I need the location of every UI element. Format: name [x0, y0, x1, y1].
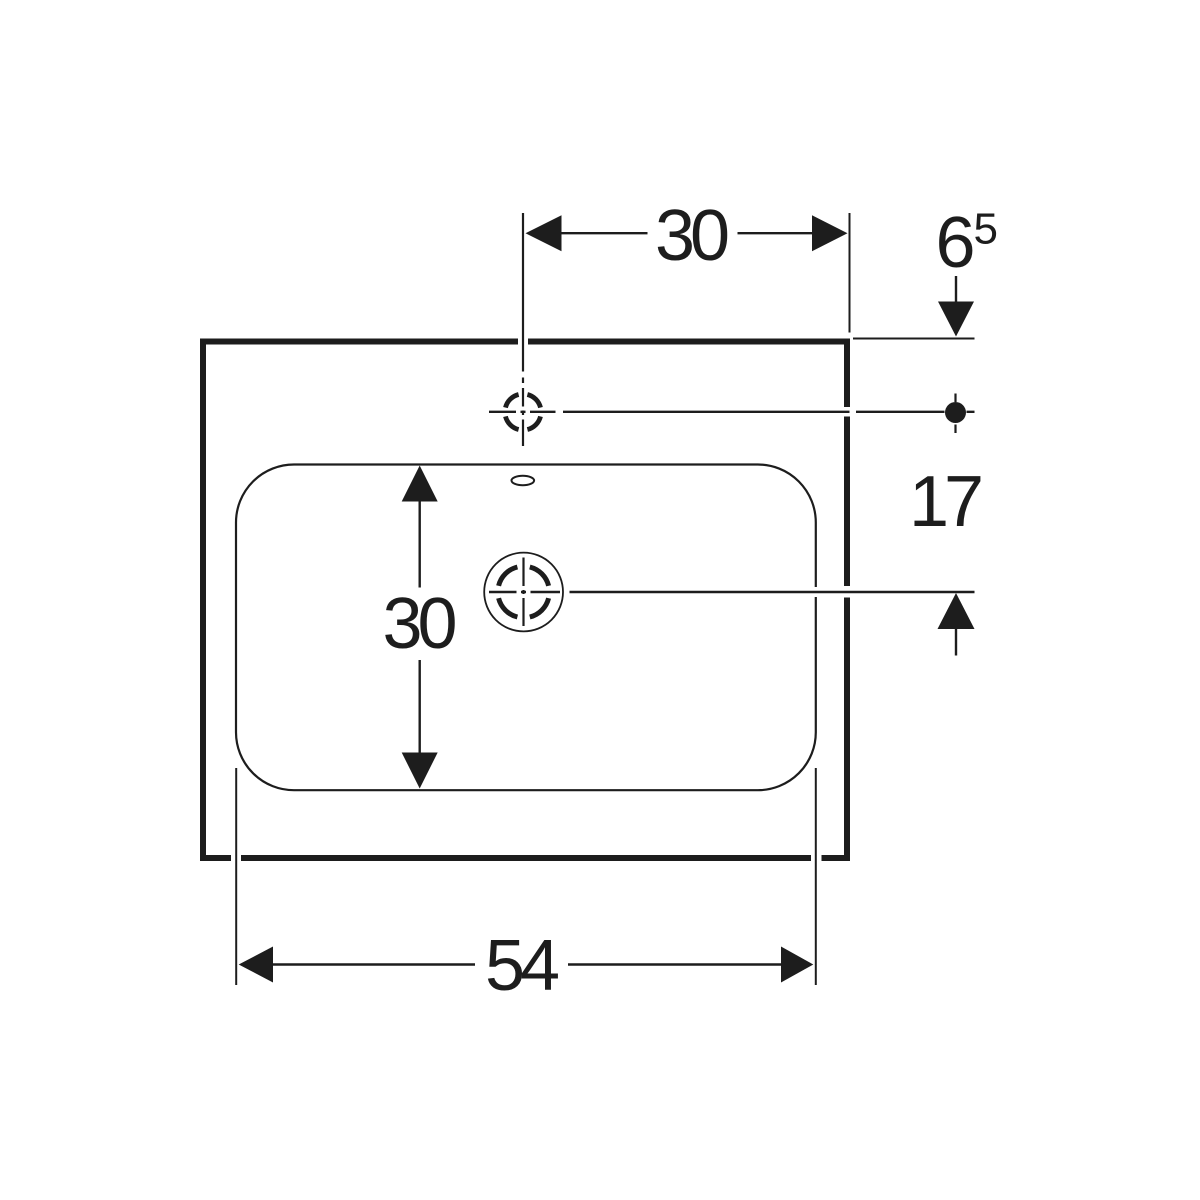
svg-text:30: 30 [382, 584, 455, 664]
faucet hole vertical centerline / extension line [522, 213, 524, 446]
overflow slot ellipse [512, 476, 535, 485]
faucet hole horizontal centerline to dot [489, 411, 975, 413]
vertical dimension 30 inside basin: arrows [402, 466, 438, 502]
dot marker on faucet line [945, 402, 966, 423]
svg-text:17: 17 [909, 462, 981, 542]
top dimension 30: dimension line [562, 232, 813, 234]
vertical dimension 30: dimension line [419, 502, 421, 753]
bottom dimension 54: extension lines [236, 768, 816, 985]
top dimension 30: left arrowhead [526, 215, 562, 251]
dimension 6(5): reference line (top edge extension) [853, 338, 975, 340]
drain bold arcs [499, 567, 549, 617]
washbasin outer rectangle (countertop outline) [200, 339, 850, 862]
faucet hole bold arcs [506, 395, 541, 430]
svg-text:6: 6 [936, 203, 976, 283]
top dimension 30: right arrowhead [812, 215, 848, 251]
svg-text:54: 54 [485, 926, 558, 1006]
svg-text:30: 30 [655, 196, 728, 276]
drain horizontal centerline and line to right dimension [489, 591, 975, 593]
bottom dimension 54: dimension line [273, 963, 781, 965]
drain vertical centerline [522, 558, 524, 627]
dimension 6(5): down arrow [955, 276, 957, 302]
svg-text:5: 5 [974, 205, 998, 254]
bottom dimension 54: arrowheads [239, 947, 273, 983]
basin bowl rounded outline [236, 465, 816, 791]
dimension 17: up arrow pointing at drain line [938, 593, 975, 629]
drain outer circle [484, 553, 563, 632]
top dimension 30: right extension line [849, 213, 851, 333]
